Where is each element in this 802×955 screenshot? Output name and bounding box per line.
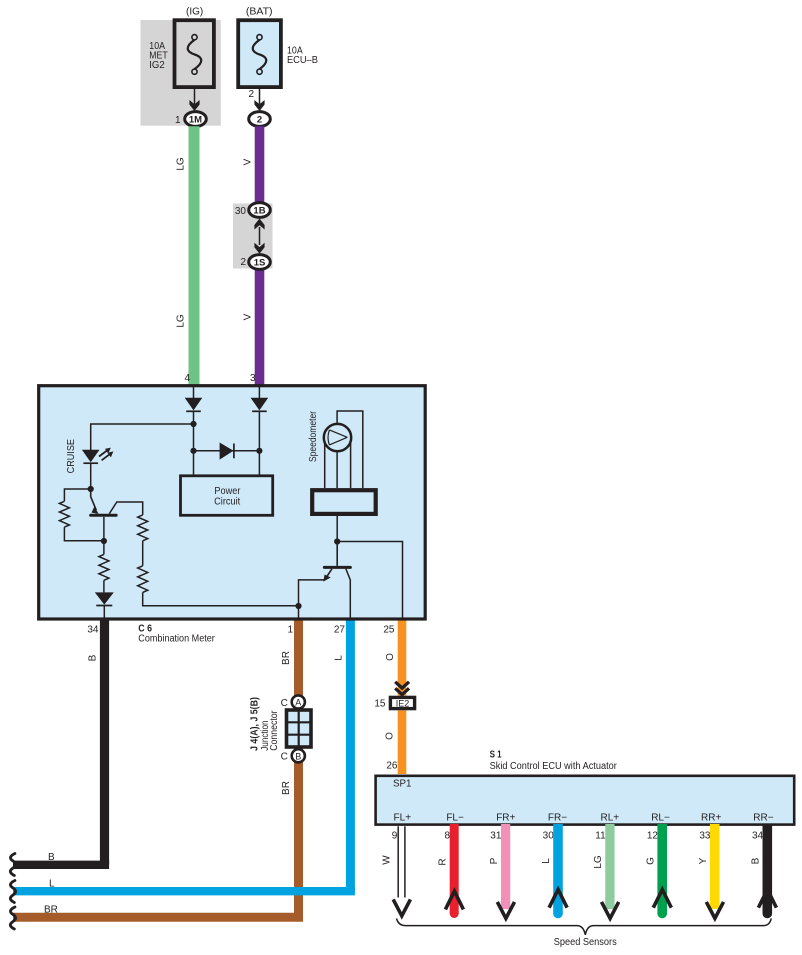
wire L (blue) horizontal <box>13 887 355 895</box>
connector block shading 1B-1S <box>233 204 273 269</box>
transistor Q2 base bar <box>323 566 352 569</box>
svg-text:Power: Power <box>214 486 241 497</box>
svg-text:BR: BR <box>281 651 292 665</box>
svg-text:2: 2 <box>248 89 254 100</box>
svg-text:Circuit: Circuit <box>214 496 240 507</box>
diode D4 <box>95 592 114 604</box>
arrow up to 1B <box>254 219 264 230</box>
wire pin4 to diode D1 <box>193 386 195 398</box>
wire V (violet) upper segment <box>255 126 265 206</box>
svg-text:B: B <box>88 654 99 661</box>
wire G (green, RL-) <box>657 824 667 914</box>
speedometer top wire <box>337 411 363 488</box>
svg-text:IG2: IG2 <box>149 60 165 71</box>
svg-text:Speed Sensors: Speed Sensors <box>554 937 617 948</box>
svg-text:LG: LG <box>593 855 604 869</box>
squiggle black wire end <box>10 854 15 876</box>
svg-text:1: 1 <box>175 115 181 126</box>
svg-text:ECU–B: ECU–B <box>287 55 318 66</box>
wire LG (green) pin4 <box>189 126 200 385</box>
wire node to pin 1 <box>298 606 300 618</box>
wire D2 to power circuit <box>258 411 260 476</box>
svg-text:27: 27 <box>334 625 346 636</box>
wire LED to node <box>90 463 92 489</box>
svg-text:30: 30 <box>235 206 247 217</box>
wire R3 to diode D4 <box>103 580 105 592</box>
svg-text:15: 15 <box>374 699 386 710</box>
svg-text:25: 25 <box>383 625 395 636</box>
svg-text:RL−: RL− <box>651 812 670 823</box>
svg-text:Y: Y <box>698 857 709 864</box>
svg-text:26: 26 <box>386 761 398 772</box>
svg-text:2: 2 <box>257 114 262 125</box>
wire B (black) vertical from pin 34 <box>100 617 109 865</box>
fuse 10A ECU-B (BAT) <box>238 20 281 87</box>
wire node to pin 25 <box>337 542 402 619</box>
arrow Y down <box>706 902 723 919</box>
wire pin3 to diode D2 <box>258 386 260 398</box>
svg-text:30: 30 <box>543 831 555 842</box>
wire BR (brown) horizontal <box>13 913 303 922</box>
junction terminal A <box>292 695 305 708</box>
speedometer right lead <box>350 444 352 489</box>
svg-text:W: W <box>382 855 393 865</box>
combination meter box C6 <box>39 386 426 619</box>
wire O (orange) pin25 to IE2 <box>398 617 407 696</box>
wire D4 to pin 34 <box>103 606 105 619</box>
wire drive box to node <box>336 516 338 542</box>
svg-text:31: 31 <box>490 831 502 842</box>
svg-text:33: 33 <box>699 831 711 842</box>
svg-text:B: B <box>295 751 301 761</box>
svg-text:8: 8 <box>444 831 450 842</box>
svg-text:3: 3 <box>250 373 256 384</box>
wire Q2 emitter to pin1 node <box>299 580 325 606</box>
svg-text:IE2: IE2 <box>396 698 410 708</box>
connector 1M <box>185 112 207 127</box>
wire fuse BAT to 2 <box>259 87 261 104</box>
wire D1 to power circuit <box>193 411 195 476</box>
svg-text:1S: 1S <box>254 257 266 268</box>
wire V (violet) lower segment <box>255 266 265 385</box>
wire LG (light green, RL+) <box>605 824 614 909</box>
wire R1 to base node <box>64 527 104 541</box>
svg-text:LG: LG <box>176 157 187 171</box>
resistor R3 <box>99 554 109 580</box>
transistor Q1 emitter wire <box>91 489 97 510</box>
wire fuse IG to 1M <box>194 87 196 104</box>
svg-text:BR: BR <box>281 781 292 795</box>
wire node to resistor R3 <box>103 541 105 554</box>
arrow down to 1S <box>254 243 264 254</box>
svg-text:P: P <box>489 857 500 864</box>
diode D3 <box>220 443 234 460</box>
svg-text:V: V <box>243 313 254 320</box>
svg-text:Connector: Connector <box>269 710 280 751</box>
svg-text:1: 1 <box>287 625 293 636</box>
svg-text:4: 4 <box>184 373 190 384</box>
speed sensors brace <box>397 918 772 934</box>
svg-text:Speedometer: Speedometer <box>308 410 319 462</box>
svg-text:L: L <box>541 858 552 864</box>
svg-text:B: B <box>751 857 762 864</box>
node base-R1-R3 <box>101 538 107 544</box>
svg-text:2: 2 <box>240 257 246 268</box>
diode D1 <box>185 398 203 411</box>
transistor Q2 emitter wire <box>327 569 332 576</box>
svg-text:(BAT): (BAT) <box>246 7 273 18</box>
wire R2 middle <box>142 541 144 566</box>
arrow G up <box>653 890 671 908</box>
connector 1S <box>249 255 271 270</box>
svg-text:B: B <box>48 852 55 863</box>
arrow L up <box>549 890 567 908</box>
fuse block ground shading (grey background, MET fuse) <box>141 20 221 126</box>
svg-text:RR−: RR− <box>753 812 773 823</box>
transistor Q1 emitter arrow <box>92 507 99 514</box>
svg-text:Skid Control ECU with Actuator: Skid Control ECU with Actuator <box>490 761 618 772</box>
junction connector grid <box>287 710 312 747</box>
svg-text:1M: 1M <box>189 114 202 125</box>
speedometer drive box <box>312 490 376 514</box>
svg-text:FL−: FL− <box>446 812 464 823</box>
speedometer left lead <box>324 444 326 489</box>
svg-text:11: 11 <box>595 831 606 842</box>
arrow LG down <box>602 902 619 919</box>
wire L (blue, FR-) <box>553 824 563 914</box>
arrow B up <box>758 890 776 908</box>
svg-text:J 4(A), J 5(B): J 4(A), J 5(B) <box>250 697 261 751</box>
LED emission arrows <box>99 451 107 457</box>
svg-text:O: O <box>385 732 396 740</box>
wire L (blue) vertical from pin 27 <box>346 617 355 891</box>
wire B (black, RR-) <box>762 824 772 914</box>
svg-text:FR+: FR+ <box>496 812 515 823</box>
transistor Q1 base bar <box>89 514 117 517</box>
svg-text:S 1: S 1 <box>490 750 502 761</box>
svg-text:L: L <box>49 879 55 890</box>
arrow into 2 <box>254 100 264 111</box>
skid control ECU box <box>376 776 795 825</box>
svg-text:V: V <box>243 158 254 165</box>
svg-text:FL+: FL+ <box>394 812 412 823</box>
svg-text:C: C <box>281 698 288 709</box>
node D1 line to D3 <box>190 448 196 454</box>
power circuit box <box>181 476 273 516</box>
transistor Q2 collector wire <box>346 569 350 618</box>
wire R (red, FL-) <box>450 824 459 914</box>
wire through diode D3 <box>194 450 260 452</box>
svg-text:RL+: RL+ <box>600 812 619 823</box>
junction terminal B <box>292 749 305 762</box>
svg-text:L: L <box>334 655 345 661</box>
resistor R2 upper <box>138 515 148 541</box>
svg-text:9: 9 <box>392 831 398 842</box>
arrow W down <box>393 899 410 916</box>
svg-text:BR: BR <box>44 905 58 916</box>
svg-text:R: R <box>438 858 449 865</box>
svg-text:CRUISE: CRUISE <box>66 439 77 474</box>
svg-text:C: C <box>281 752 288 763</box>
arrow into 1M <box>189 100 199 111</box>
speedometer needle <box>329 430 347 445</box>
connector 1B <box>249 203 271 218</box>
squiggle blue wire end <box>10 881 15 903</box>
svg-text:A: A <box>295 698 301 708</box>
wire BR (brown) vertical from pin 1 <box>294 617 303 917</box>
node D2 line to D3 <box>256 448 262 454</box>
wire Y (yellow, RR+) <box>710 824 720 909</box>
transistor Q2 emitter arrow <box>323 575 330 582</box>
arrow R up <box>445 891 463 909</box>
transistor Q1 collector wire <box>109 502 142 515</box>
svg-text:Combination Meter: Combination Meter <box>138 633 215 644</box>
node pin1 <box>295 603 301 609</box>
speedometer gauge circle <box>324 424 351 451</box>
svg-text:34: 34 <box>87 625 99 636</box>
svg-text:G: G <box>646 857 657 865</box>
wire B (black) horizontal <box>13 861 109 869</box>
svg-text:SP1: SP1 <box>393 778 412 789</box>
resistor R1 <box>59 501 69 527</box>
speedometer mid lead <box>336 451 338 488</box>
LED CRUISE diode <box>82 450 100 463</box>
wire O (orange) IE2 to ECU <box>398 711 407 775</box>
node below D1 (to CRUISE lamp) <box>190 421 196 427</box>
squiggle brown wire end <box>10 907 15 929</box>
wire R2 to node at pin1 line <box>143 592 299 605</box>
wire Q1 base down <box>103 517 105 541</box>
resistor R2 lower <box>138 566 148 593</box>
arrow P down <box>497 902 514 919</box>
wire node to Q2 <box>336 542 338 566</box>
svg-text:RR+: RR+ <box>701 812 721 823</box>
fuse 10A MET IG2 (IG) <box>175 20 214 87</box>
connector IE2 <box>390 697 414 708</box>
svg-text:O: O <box>385 653 396 661</box>
svg-text:34: 34 <box>752 831 764 842</box>
wire between 1B and 1S <box>259 227 261 245</box>
node below LED <box>88 486 94 492</box>
diode D2 <box>251 398 269 411</box>
double chevron arrow into IE2 <box>395 682 409 688</box>
svg-text:1B: 1B <box>253 205 265 216</box>
connector 2 <box>249 112 271 127</box>
svg-text:(IG): (IG) <box>186 7 203 18</box>
wire node to CRUISE branch <box>91 424 194 450</box>
wire P (pink, FR+) <box>501 824 510 909</box>
svg-text:FR−: FR− <box>548 812 567 823</box>
wire W (white, FL+) <box>397 826 399 897</box>
svg-text:12: 12 <box>647 831 659 842</box>
wire node to resistor R1 <box>64 489 90 501</box>
node speed output <box>334 538 340 544</box>
svg-text:LG: LG <box>176 314 187 328</box>
